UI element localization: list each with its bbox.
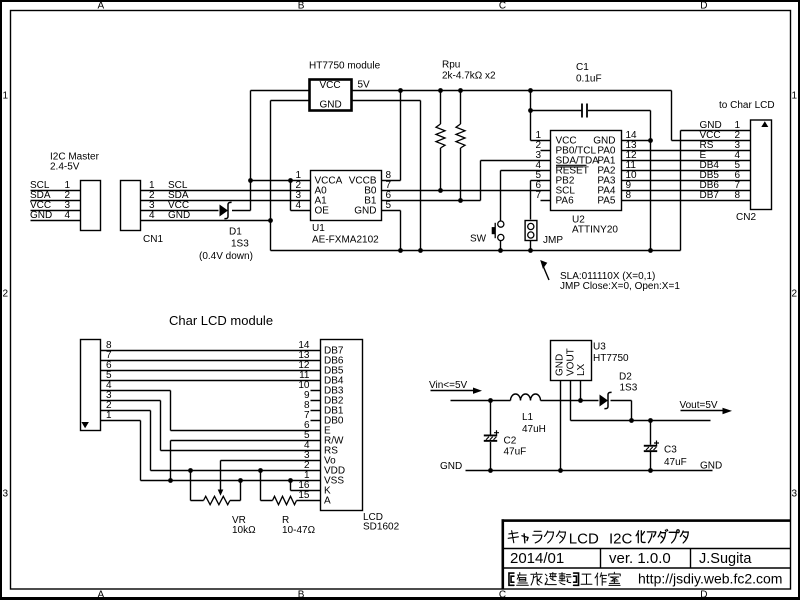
- svg-text:LCD: LCD: [569, 530, 599, 547]
- svg-text:A: A: [98, 590, 105, 600]
- svg-text:L1: L1: [522, 412, 534, 423]
- svg-text:8: 8: [626, 190, 632, 201]
- svg-text:OE: OE: [315, 205, 330, 216]
- svg-text:0.1uF: 0.1uF: [576, 74, 602, 85]
- svg-text:I2C: I2C: [609, 530, 633, 547]
- svg-text:C: C: [499, 1, 506, 12]
- svg-text:Rpu: Rpu: [442, 60, 460, 71]
- svg-text:AE-FXMA2102: AE-FXMA2102: [312, 234, 379, 245]
- svg-text:(0.4V down): (0.4V down): [199, 251, 253, 262]
- svg-text:C2: C2: [504, 436, 517, 447]
- svg-text:5: 5: [386, 200, 392, 211]
- svg-text:2: 2: [3, 289, 9, 300]
- svg-text:SD1602: SD1602: [363, 522, 400, 533]
- svg-text:1S3: 1S3: [620, 383, 638, 394]
- svg-text:C3: C3: [664, 445, 677, 456]
- svg-text:Char LCD module: Char LCD module: [169, 313, 273, 328]
- svg-text:ATTINY20: ATTINY20: [572, 225, 618, 236]
- svg-text:4: 4: [64, 210, 70, 221]
- svg-text:DB7: DB7: [700, 190, 720, 201]
- svg-text:ver. 1.0.0: ver. 1.0.0: [609, 550, 671, 567]
- svg-text:47uH: 47uH: [522, 424, 546, 435]
- svg-text:to Char LCD: to Char LCD: [719, 100, 775, 111]
- svg-text:C1: C1: [576, 62, 589, 73]
- svg-text:GND: GND: [700, 461, 722, 472]
- svg-text:1: 1: [106, 410, 112, 421]
- svg-text:D2: D2: [619, 372, 632, 383]
- svg-text:CN2: CN2: [736, 212, 756, 223]
- svg-text:2.4-5V: 2.4-5V: [50, 162, 80, 173]
- svg-text:15: 15: [298, 490, 310, 501]
- svg-text:GND: GND: [168, 210, 190, 221]
- svg-text:D: D: [700, 1, 707, 12]
- svg-text:2k-4.7kΩ x2: 2k-4.7kΩ x2: [442, 70, 496, 81]
- svg-text:LX: LX: [576, 363, 587, 376]
- svg-text:HT7750: HT7750: [593, 353, 629, 364]
- svg-text:U1: U1: [312, 223, 325, 234]
- svg-text:2: 2: [792, 289, 798, 300]
- svg-text:PA6: PA6: [556, 195, 575, 206]
- svg-text:47uF: 47uF: [504, 447, 527, 458]
- svg-text:CN1: CN1: [143, 234, 163, 245]
- svg-text:C: C: [499, 590, 506, 600]
- svg-text:GND: GND: [555, 354, 566, 376]
- svg-text:A: A: [324, 495, 331, 506]
- svg-text:B: B: [298, 1, 305, 12]
- svg-text:5V: 5V: [358, 80, 371, 91]
- svg-text:7: 7: [535, 190, 541, 201]
- svg-text:JMP Close:X=0, Open:X=1: JMP Close:X=0, Open:X=1: [560, 281, 680, 292]
- svg-text:B: B: [298, 590, 305, 600]
- svg-text:SW: SW: [470, 234, 487, 245]
- svg-text:3: 3: [792, 489, 798, 500]
- svg-text:GND: GND: [354, 205, 376, 216]
- svg-text:Vin<=5V: Vin<=5V: [429, 380, 468, 391]
- svg-text:10-47Ω: 10-47Ω: [282, 525, 316, 536]
- svg-text:GND: GND: [30, 210, 52, 221]
- svg-text:D1: D1: [229, 226, 242, 237]
- svg-text:U3: U3: [593, 342, 606, 353]
- svg-text:Vout=5V: Vout=5V: [680, 400, 718, 411]
- svg-text:1S3: 1S3: [231, 238, 249, 249]
- svg-text:VOUT: VOUT: [565, 348, 576, 376]
- svg-text:47uF: 47uF: [664, 457, 687, 468]
- svg-text:8: 8: [734, 190, 740, 201]
- svg-text:1: 1: [3, 91, 9, 102]
- svg-text:1: 1: [792, 91, 798, 102]
- svg-text:http://jsdiy.web.fc2.com: http://jsdiy.web.fc2.com: [638, 571, 782, 587]
- svg-text:GND: GND: [320, 100, 342, 111]
- svg-text:2014/01: 2014/01: [510, 550, 564, 567]
- svg-text:4: 4: [295, 200, 301, 211]
- svg-text:GND: GND: [440, 461, 462, 472]
- svg-text:D: D: [700, 590, 707, 600]
- svg-text:J.Sugita: J.Sugita: [699, 551, 752, 567]
- svg-text:A: A: [98, 1, 105, 12]
- svg-text:10kΩ: 10kΩ: [232, 525, 256, 536]
- svg-text:VCC: VCC: [320, 80, 341, 91]
- svg-text:3: 3: [3, 489, 9, 500]
- svg-text:PA5: PA5: [597, 195, 616, 206]
- svg-text:JMP: JMP: [543, 235, 563, 246]
- svg-text:4: 4: [149, 210, 155, 221]
- svg-text:HT7750 module: HT7750 module: [309, 61, 381, 72]
